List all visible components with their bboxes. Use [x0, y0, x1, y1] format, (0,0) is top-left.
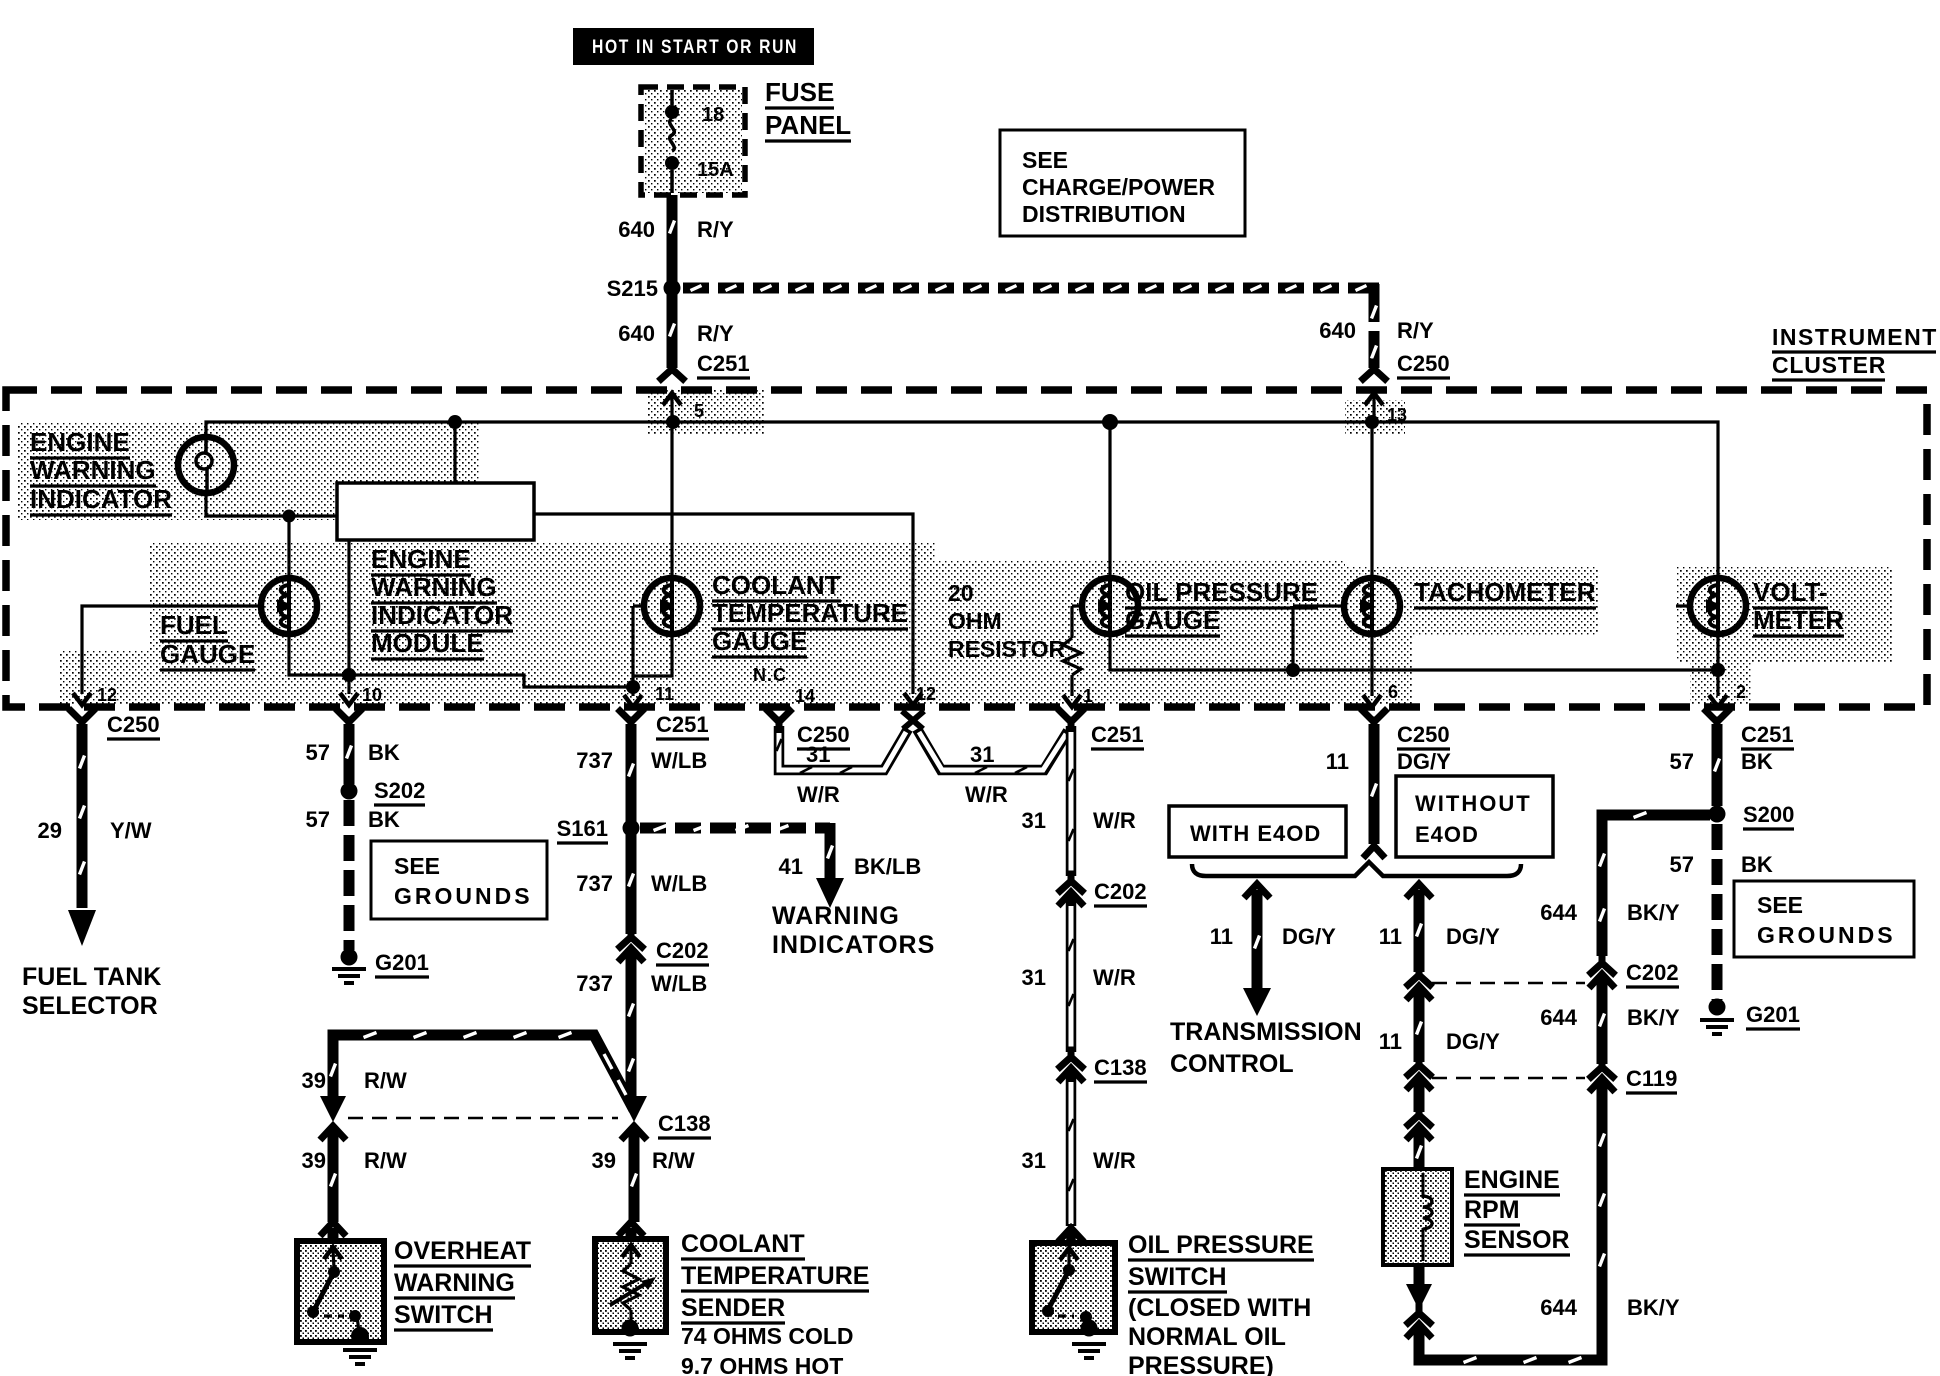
- wire 57 BK (connector C251 right) with splice S200: [1670, 711, 1795, 1000]
- connector C119 (11 DG/Y): [1406, 1058, 1585, 1090]
- svg-text:737: 737: [576, 748, 613, 773]
- svg-text:BK: BK: [1741, 852, 1773, 877]
- svg-text:W/R: W/R: [797, 782, 840, 807]
- svg-text:SEE: SEE: [1022, 147, 1068, 173]
- wire module pin to bus: [453, 422, 456, 483]
- svg-text:SEE: SEE: [394, 853, 440, 879]
- svg-text:WARNING: WARNING: [371, 572, 497, 602]
- svg-text:R/W: R/W: [364, 1148, 407, 1173]
- svg-text:FUSE: FUSE: [765, 77, 834, 107]
- label FUSE PANEL: [765, 77, 851, 141]
- svg-text:GAUGE: GAUGE: [1125, 605, 1220, 635]
- connector C202 (644): [1589, 956, 1679, 988]
- svg-text:R/W: R/W: [364, 1068, 407, 1093]
- svg-text:WARNING: WARNING: [394, 1269, 515, 1297]
- svg-text:SELECTOR: SELECTOR: [22, 992, 158, 1020]
- svg-text:39: 39: [302, 1148, 326, 1173]
- svg-text:31: 31: [1022, 808, 1046, 833]
- svg-text:OIL PRESSURE: OIL PRESSURE: [1125, 577, 1318, 607]
- gauge OIL PRESSURE GAUGE: [1072, 422, 1318, 670]
- svg-text:OHM: OHM: [948, 608, 1002, 634]
- svg-text:S200: S200: [1743, 802, 1794, 827]
- svg-text:SWITCH: SWITCH: [394, 1301, 493, 1329]
- svg-text:RPM: RPM: [1464, 1196, 1520, 1224]
- svg-text:DG/Y: DG/Y: [1446, 924, 1500, 949]
- svg-text:11: 11: [1210, 924, 1233, 949]
- wire 644 BK/Y (S200 to C202): [1540, 813, 1710, 957]
- svg-text:TACHOMETER: TACHOMETER: [1414, 577, 1596, 607]
- pin 13 entry (C250): [1365, 393, 1407, 425]
- svg-text:PANEL: PANEL: [765, 110, 851, 140]
- connector C138 (31): [1058, 1050, 1147, 1082]
- svg-text:TEMPERATURE: TEMPERATURE: [681, 1262, 869, 1290]
- svg-text:ENGINE: ENGINE: [1464, 1166, 1560, 1194]
- splice S215: [607, 276, 681, 301]
- svg-text:57: 57: [1670, 749, 1694, 774]
- gauge VOLT-METER: [1676, 577, 1844, 707]
- svg-text:W/R: W/R: [1093, 965, 1136, 990]
- note box SEE CHARGE/POWER DISTRIBUTION: [1000, 130, 1245, 236]
- svg-text:ENGINE: ENGINE: [371, 544, 471, 574]
- svg-text:1: 1: [1083, 686, 1093, 706]
- svg-text:BK/Y: BK/Y: [1627, 1005, 1680, 1030]
- wire 11 DG/Y (C119 to rpm sensor): [1406, 1086, 1432, 1168]
- svg-text:CHARGE/POWER: CHARGE/POWER: [1022, 174, 1215, 200]
- svg-text:GROUNDS: GROUNDS: [394, 883, 533, 909]
- label INSTRUMENT CLUSTER: [1772, 324, 1938, 380]
- wire 31 W/R (C202 to C138): [1022, 900, 1136, 1052]
- wire 11 DG/Y (connector C250): [1326, 711, 1451, 858]
- note box WITHOUT E4OD: [1396, 776, 1553, 857]
- ground G201 (S200): [1700, 999, 1800, 1035]
- sender COOLANT TEMPERATURE SENDER: [595, 1230, 869, 1376]
- svg-text:BK/Y: BK/Y: [1627, 1295, 1680, 1320]
- svg-text:31: 31: [1022, 965, 1046, 990]
- svg-text:OIL PRESSURE: OIL PRESSURE: [1128, 1231, 1314, 1259]
- svg-text:18: 18: [702, 104, 724, 126]
- svg-text:G201: G201: [1746, 1002, 1800, 1027]
- switch OVERHEAT WARNING SWITCH: [297, 1237, 531, 1364]
- sensor ENGINE RPM SENSOR: [1383, 1166, 1570, 1265]
- svg-text:12: 12: [916, 684, 936, 704]
- wire 640 R/Y (S215 to C251): [618, 294, 734, 368]
- svg-text:DG/Y: DG/Y: [1397, 749, 1451, 774]
- svg-text:MODULE: MODULE: [371, 628, 484, 658]
- connector C251 (cluster top): [661, 351, 750, 379]
- svg-text:644: 644: [1540, 1295, 1577, 1320]
- connector C202 (737): [618, 930, 709, 965]
- svg-text:644: 644: [1540, 900, 1577, 925]
- svg-text:BK/LB: BK/LB: [854, 854, 921, 879]
- svg-text:W/R: W/R: [1093, 808, 1136, 833]
- svg-text:GROUNDS: GROUNDS: [1757, 922, 1896, 948]
- wire 11 DG/Y (without E4OD): [1379, 884, 1500, 972]
- svg-text:737: 737: [576, 971, 613, 996]
- fuse panel box: [641, 87, 745, 195]
- svg-text:W/R: W/R: [1093, 1148, 1136, 1173]
- note box WITH E4OD: [1169, 806, 1346, 857]
- svg-text:6: 6: [1388, 682, 1398, 702]
- svg-text:W/LB: W/LB: [651, 748, 707, 773]
- svg-text:14: 14: [795, 686, 815, 706]
- halftone shading patches: [18, 90, 1892, 705]
- svg-text:57: 57: [306, 807, 330, 832]
- svg-text:INDICATOR: INDICATOR: [371, 600, 513, 630]
- svg-text:C138: C138: [1094, 1055, 1147, 1080]
- svg-text:C251: C251: [1741, 722, 1794, 747]
- gauge TACHOMETER: [1286, 422, 1718, 707]
- svg-text:C202: C202: [1094, 879, 1147, 904]
- svg-text:11: 11: [1379, 1029, 1402, 1054]
- wire fuel gauge / module to pin 10: [289, 540, 382, 705]
- svg-text:RESISTOR: RESISTOR: [948, 636, 1066, 662]
- svg-text:N.C: N.C: [753, 665, 787, 685]
- wire 737 W/LB (C202 to C138): [576, 957, 707, 1104]
- svg-text:SENDER: SENDER: [681, 1294, 785, 1322]
- connector C119 (644): [1589, 1060, 1677, 1093]
- svg-text:640: 640: [618, 321, 655, 346]
- svg-text:S161: S161: [557, 816, 608, 841]
- svg-text:9.7 OHMS HOT: 9.7 OHMS HOT: [681, 1353, 843, 1376]
- svg-text:BK: BK: [1741, 749, 1773, 774]
- svg-text:10: 10: [362, 685, 382, 705]
- svg-text:12: 12: [97, 685, 117, 705]
- resistor 20 OHM: [948, 580, 1093, 707]
- module ENGINE WARNING INDICATOR MODULE: [337, 483, 534, 659]
- svg-text:R/Y: R/Y: [1397, 318, 1434, 343]
- svg-text:WITHOUT: WITHOUT: [1415, 791, 1532, 816]
- pin 5 entry (C251): [663, 393, 704, 422]
- wire 640 R/Y (S215 to C250, dashed): [683, 284, 1434, 368]
- svg-text:R/Y: R/Y: [697, 217, 734, 242]
- svg-text:2: 2: [1736, 682, 1746, 702]
- wire gauges return to pin 11: [349, 675, 674, 707]
- svg-text:DG/Y: DG/Y: [1282, 924, 1336, 949]
- svg-text:COOLANT: COOLANT: [712, 570, 841, 600]
- svg-text:57: 57: [1670, 852, 1694, 877]
- brace (E4OD options): [1192, 862, 1521, 876]
- svg-text:C119: C119: [1626, 1066, 1677, 1091]
- svg-text:31: 31: [1022, 1148, 1046, 1173]
- wire 31 W/R (C138 to oil pressure switch): [1022, 1076, 1136, 1243]
- svg-text:FUEL TANK: FUEL TANK: [22, 963, 161, 991]
- svg-text:C250: C250: [107, 712, 160, 737]
- wire 737 W/LB (S161 to C202): [576, 834, 707, 934]
- connector C138 (39/737): [320, 1096, 711, 1140]
- svg-text:CLUSTER: CLUSTER: [1772, 352, 1886, 378]
- svg-text:41: 41: [779, 854, 803, 879]
- svg-text:R/Y: R/Y: [697, 321, 734, 346]
- wire 644 BK/Y (C119 to rpm sensor loop): [1540, 1087, 1680, 1356]
- connector C250 (cluster top right): [1363, 351, 1450, 379]
- svg-text:INDICATORS: INDICATORS: [772, 931, 935, 959]
- svg-text:BK/Y: BK/Y: [1627, 900, 1680, 925]
- connector C202 (11 DG/Y): [1406, 968, 1585, 1000]
- indicator lamp ENGINE WARNING INDICATOR: [30, 427, 234, 515]
- svg-text:FUEL: FUEL: [160, 610, 228, 640]
- svg-text:5: 5: [694, 401, 704, 421]
- svg-text:INSTRUMENT: INSTRUMENT: [1772, 324, 1938, 350]
- svg-text:C251: C251: [697, 351, 750, 376]
- svg-text:31: 31: [806, 742, 830, 767]
- gauge FUEL GAUGE: [160, 516, 317, 670]
- wire 11 DG/Y (C202 to C119): [1379, 995, 1500, 1062]
- svg-text:DG/Y: DG/Y: [1446, 1029, 1500, 1054]
- svg-text:INDICATOR: INDICATOR: [30, 484, 172, 514]
- note box SEE GROUNDS (right): [1734, 881, 1914, 957]
- svg-text:20: 20: [948, 580, 974, 606]
- svg-text:WITH E4OD: WITH E4OD: [1190, 821, 1321, 846]
- wire 39 R/W (C138 to coolant sender): [592, 1136, 695, 1239]
- svg-text:39: 39: [302, 1068, 326, 1093]
- splice S161 / wire 41 BK/LB to warning indicators: [557, 816, 922, 908]
- wire 31 W/R (C250 pin14 to pin12, hollow): [768, 711, 908, 807]
- title banner HOT IN START OR RUN: [573, 28, 814, 65]
- svg-text:R/W: R/W: [652, 1148, 695, 1173]
- svg-text:NORMAL OIL: NORMAL OIL: [1128, 1323, 1286, 1351]
- svg-text:11: 11: [1326, 749, 1349, 774]
- svg-text:GAUGE: GAUGE: [160, 639, 255, 669]
- svg-text:Y/W: Y/W: [110, 818, 152, 843]
- svg-text:W/R: W/R: [965, 782, 1008, 807]
- instrument cluster boundary: [6, 390, 1927, 707]
- svg-text:S215: S215: [607, 276, 658, 301]
- svg-text:W/LB: W/LB: [651, 971, 707, 996]
- wire module to pin 12: [534, 514, 936, 705]
- wire fuel gauge to pin 12: [73, 606, 261, 705]
- ground G201 (S202): [332, 949, 429, 984]
- svg-text:15A: 15A: [697, 159, 734, 181]
- svg-text:HOT IN START OR RUN: HOT IN START OR RUN: [592, 37, 798, 58]
- svg-text:BK: BK: [368, 740, 400, 765]
- svg-text:CONTROL: CONTROL: [1170, 1050, 1294, 1078]
- wire 31 W/R (down to C202): [1022, 726, 1136, 876]
- svg-text:11: 11: [1379, 924, 1402, 949]
- wire rpm sensor return loop: [1406, 1265, 1602, 1363]
- svg-text:C202: C202: [1626, 960, 1679, 985]
- svg-text:VOLT-: VOLT-: [1753, 577, 1828, 607]
- svg-text:SWITCH: SWITCH: [1128, 1263, 1227, 1291]
- wire 11 DG/Y (with E4OD, to transmission control): [1210, 884, 1336, 1016]
- svg-text:OVERHEAT: OVERHEAT: [394, 1237, 531, 1265]
- wire internal supply bus: [206, 414, 1718, 578]
- svg-text:G201: G201: [375, 950, 429, 975]
- svg-text:WARNING: WARNING: [30, 455, 156, 485]
- svg-text:C138: C138: [658, 1111, 711, 1136]
- connector C202 (31): [1058, 874, 1147, 906]
- wire 57 BK (pin 10, connector C251) with splice S202: [306, 711, 426, 950]
- svg-text:SEE: SEE: [1757, 892, 1803, 918]
- svg-text:644: 644: [1540, 1005, 1577, 1030]
- svg-text:E4OD: E4OD: [1415, 822, 1479, 847]
- svg-text:BK: BK: [368, 807, 400, 832]
- svg-text:640: 640: [618, 217, 655, 242]
- label WARNING INDICATORS: [772, 902, 935, 959]
- label FUEL TANK SELECTOR: [22, 963, 161, 1020]
- svg-text:TRANSMISSION: TRANSMISSION: [1170, 1018, 1362, 1046]
- svg-text:S202: S202: [374, 778, 425, 803]
- wire 39 R/W branch (to overheat switch): [302, 1033, 634, 1111]
- svg-text:737: 737: [576, 871, 613, 896]
- label TRANSMISSION CONTROL: [1170, 1018, 1362, 1078]
- svg-text:W/LB: W/LB: [651, 871, 707, 896]
- switch OIL PRESSURE SWITCH: [1032, 1231, 1314, 1376]
- svg-text:GAUGE: GAUGE: [712, 626, 807, 656]
- svg-text:640: 640: [1319, 318, 1356, 343]
- wire 29 Y/W to fuel tank selector (connector C250): [38, 711, 160, 946]
- svg-text:(CLOSED WITH: (CLOSED WITH: [1128, 1294, 1311, 1322]
- svg-text:C202: C202: [656, 938, 709, 963]
- svg-text:11: 11: [655, 684, 674, 704]
- wire 31 W/R (pin12 to C251 pin1, hollow): [902, 711, 1144, 807]
- svg-text:C250: C250: [1397, 722, 1450, 747]
- svg-text:31: 31: [970, 742, 994, 767]
- svg-text:DISTRIBUTION: DISTRIBUTION: [1022, 201, 1186, 227]
- svg-text:57: 57: [306, 740, 330, 765]
- svg-text:WARNING: WARNING: [772, 902, 900, 930]
- wire 737 W/LB (connector C251): [576, 711, 709, 822]
- svg-text:COOLANT: COOLANT: [681, 1230, 805, 1258]
- wire 644 BK/Y (C202 to C119): [1540, 979, 1680, 1064]
- svg-text:ENGINE: ENGINE: [30, 427, 130, 457]
- fuse 18 (15A): [665, 90, 734, 193]
- wire 39 R/W (C138 to overheat switch): [302, 1136, 407, 1240]
- svg-text:METER: METER: [1753, 605, 1844, 635]
- svg-text:PRESSURE): PRESSURE): [1128, 1352, 1274, 1376]
- svg-text:SENSOR: SENSOR: [1464, 1226, 1570, 1254]
- svg-text:74 OHMS COLD: 74 OHMS COLD: [681, 1323, 854, 1349]
- gauge COOLANT TEMPERATURE GAUGE: [633, 422, 908, 706]
- svg-text:C251: C251: [656, 712, 709, 737]
- note box SEE GROUNDS (left): [371, 841, 547, 919]
- svg-text:C251: C251: [1091, 722, 1144, 747]
- svg-text:39: 39: [592, 1148, 616, 1173]
- svg-text:TEMPERATURE: TEMPERATURE: [712, 598, 908, 628]
- svg-text:29: 29: [38, 818, 62, 843]
- svg-text:C250: C250: [1397, 351, 1450, 376]
- wire 640 R/Y (fuse panel to S215): [618, 195, 734, 282]
- wire lamp to module (and fuel gauge tap): [206, 493, 340, 523]
